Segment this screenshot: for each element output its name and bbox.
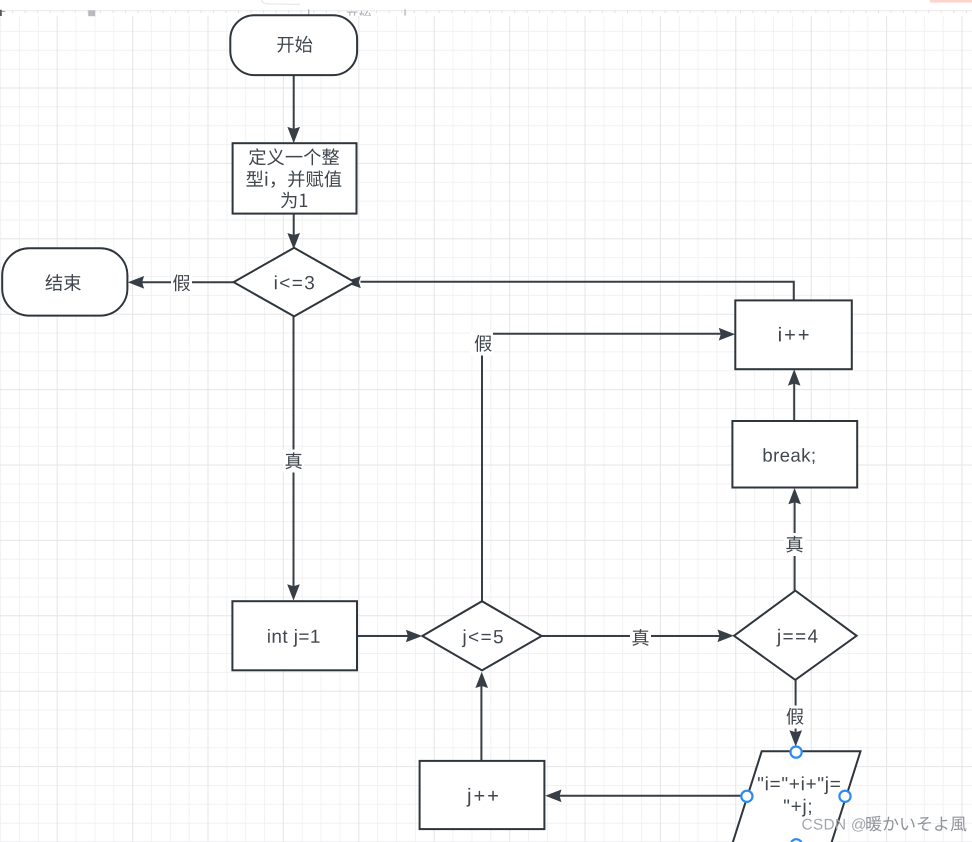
wire: diamond i<=3 -> int j=1 (true) [293, 316, 295, 586]
text j==4 [776, 629, 817, 647]
wire: diamond i<=3 -> end terminator (false) [141, 281, 234, 283]
text 为1 [281, 192, 307, 209]
blue handle bottom of parallelogram partial [791, 839, 802, 842]
node: decision j==4 [734, 591, 857, 680]
blue handle top of parallelogram [791, 747, 802, 758]
pink strip top right [930, 0, 972, 3]
ruler tick row [0, 10, 966, 13]
text 定义一个整 [249, 148, 339, 165]
faint rounded corner artifact top [262, 0, 301, 4]
wire: j++ -> diamond j<=5 [480, 686, 482, 761]
wire: diamond j==4 -> output parallelogram (false) [795, 680, 797, 734]
label bg 真 true right [630, 626, 651, 649]
blue handle left of parallelogram [741, 791, 752, 802]
node: end terminator 结束 [2, 248, 127, 315]
label 真 on edge j==4 true [786, 536, 802, 553]
text i++ [779, 327, 809, 342]
wire: break -> i++ [793, 383, 795, 422]
node: process j++ [420, 761, 545, 829]
blue handle right of parallelogram [839, 791, 850, 802]
wire: start -> define box [293, 75, 295, 131]
gray tick x405 [404, 9, 405, 15]
wire: diamond j==4 -> break (true) [794, 502, 796, 591]
label bg 真 true up [784, 533, 805, 556]
top strip divider line [0, 10, 972, 12]
wire: i++ -> diamond i<=3 loop back [361, 282, 794, 301]
label 假 on edge i<=3 false [173, 274, 190, 291]
node: decision j<=5 [422, 601, 541, 670]
text output line2 [784, 799, 811, 817]
node: process define integer i [233, 143, 357, 213]
text 结束 [45, 274, 81, 291]
label 假 on edge j<=5 false [475, 335, 492, 352]
text j<=5 [462, 629, 503, 647]
wire: diamond j<=5 -> diamond j==4 (true) [542, 635, 721, 637]
label bg 真 true down [283, 450, 304, 473]
label bg 假 false corner [470, 332, 493, 356]
text 开始 [277, 36, 312, 53]
wire: define box -> diamond i<=3 [293, 214, 295, 237]
label bg 假 false to output [785, 706, 807, 729]
wire: int j=1 -> diamond j<=5 [357, 635, 409, 637]
text 型i，并赋值 [246, 170, 341, 187]
label 假 on edge j==4 false [787, 708, 804, 725]
watermark CSDN @ [802, 818, 865, 831]
node: decision i<=3 [234, 248, 355, 317]
wire: diamond j<=5 -> i++ (false) [482, 334, 722, 601]
node: start terminator 开始 [230, 15, 357, 75]
label bg 假 false to end [171, 272, 192, 294]
node: process i++ [735, 300, 852, 369]
wire: output parallelogram -> j++ [559, 795, 747, 797]
top white strip [0, 0, 972, 10]
node: process break; [732, 421, 857, 488]
text j++ [467, 788, 498, 807]
node: data output parallelogram [730, 751, 861, 842]
label 真 on edge i<=3 true [286, 452, 302, 469]
gray square artifact [88, 10, 95, 16]
gray tick x308 [308, 9, 309, 15]
text break; [764, 448, 815, 464]
node: process int j=1 [232, 601, 357, 670]
text i<=3 [275, 275, 314, 289]
text output line1 [758, 776, 840, 794]
text int j=1 [268, 629, 319, 647]
dark tick artifact top-left [0, 10, 2, 16]
watermark 暖かいそよ風 [866, 816, 966, 832]
label 真 on edge j<=5 true [632, 629, 648, 646]
